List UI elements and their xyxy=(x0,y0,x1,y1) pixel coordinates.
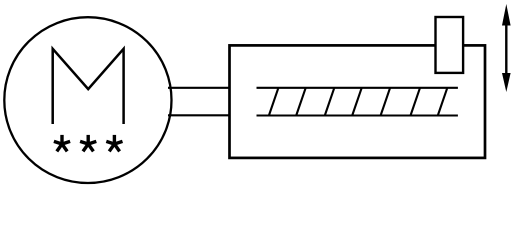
motor M1 circle body xyxy=(4,17,171,183)
screw bottom line xyxy=(257,114,458,116)
arrowhead up xyxy=(502,4,511,26)
double-headed arrow shaft xyxy=(505,23,507,76)
motor winding asterisk 3 xyxy=(106,135,122,152)
motor letter M xyxy=(53,49,124,124)
arrowhead down xyxy=(502,73,511,92)
screw top line xyxy=(257,87,458,89)
motor winding asterisk 1 xyxy=(54,135,123,152)
shaft coupling bottom line xyxy=(168,114,231,116)
shaft coupling top line xyxy=(168,87,231,89)
motor winding asterisk 2 xyxy=(80,135,96,152)
outlet rect on barrel xyxy=(436,17,464,73)
screw hatch lines xyxy=(269,88,447,116)
barrel housing box xyxy=(230,45,486,157)
